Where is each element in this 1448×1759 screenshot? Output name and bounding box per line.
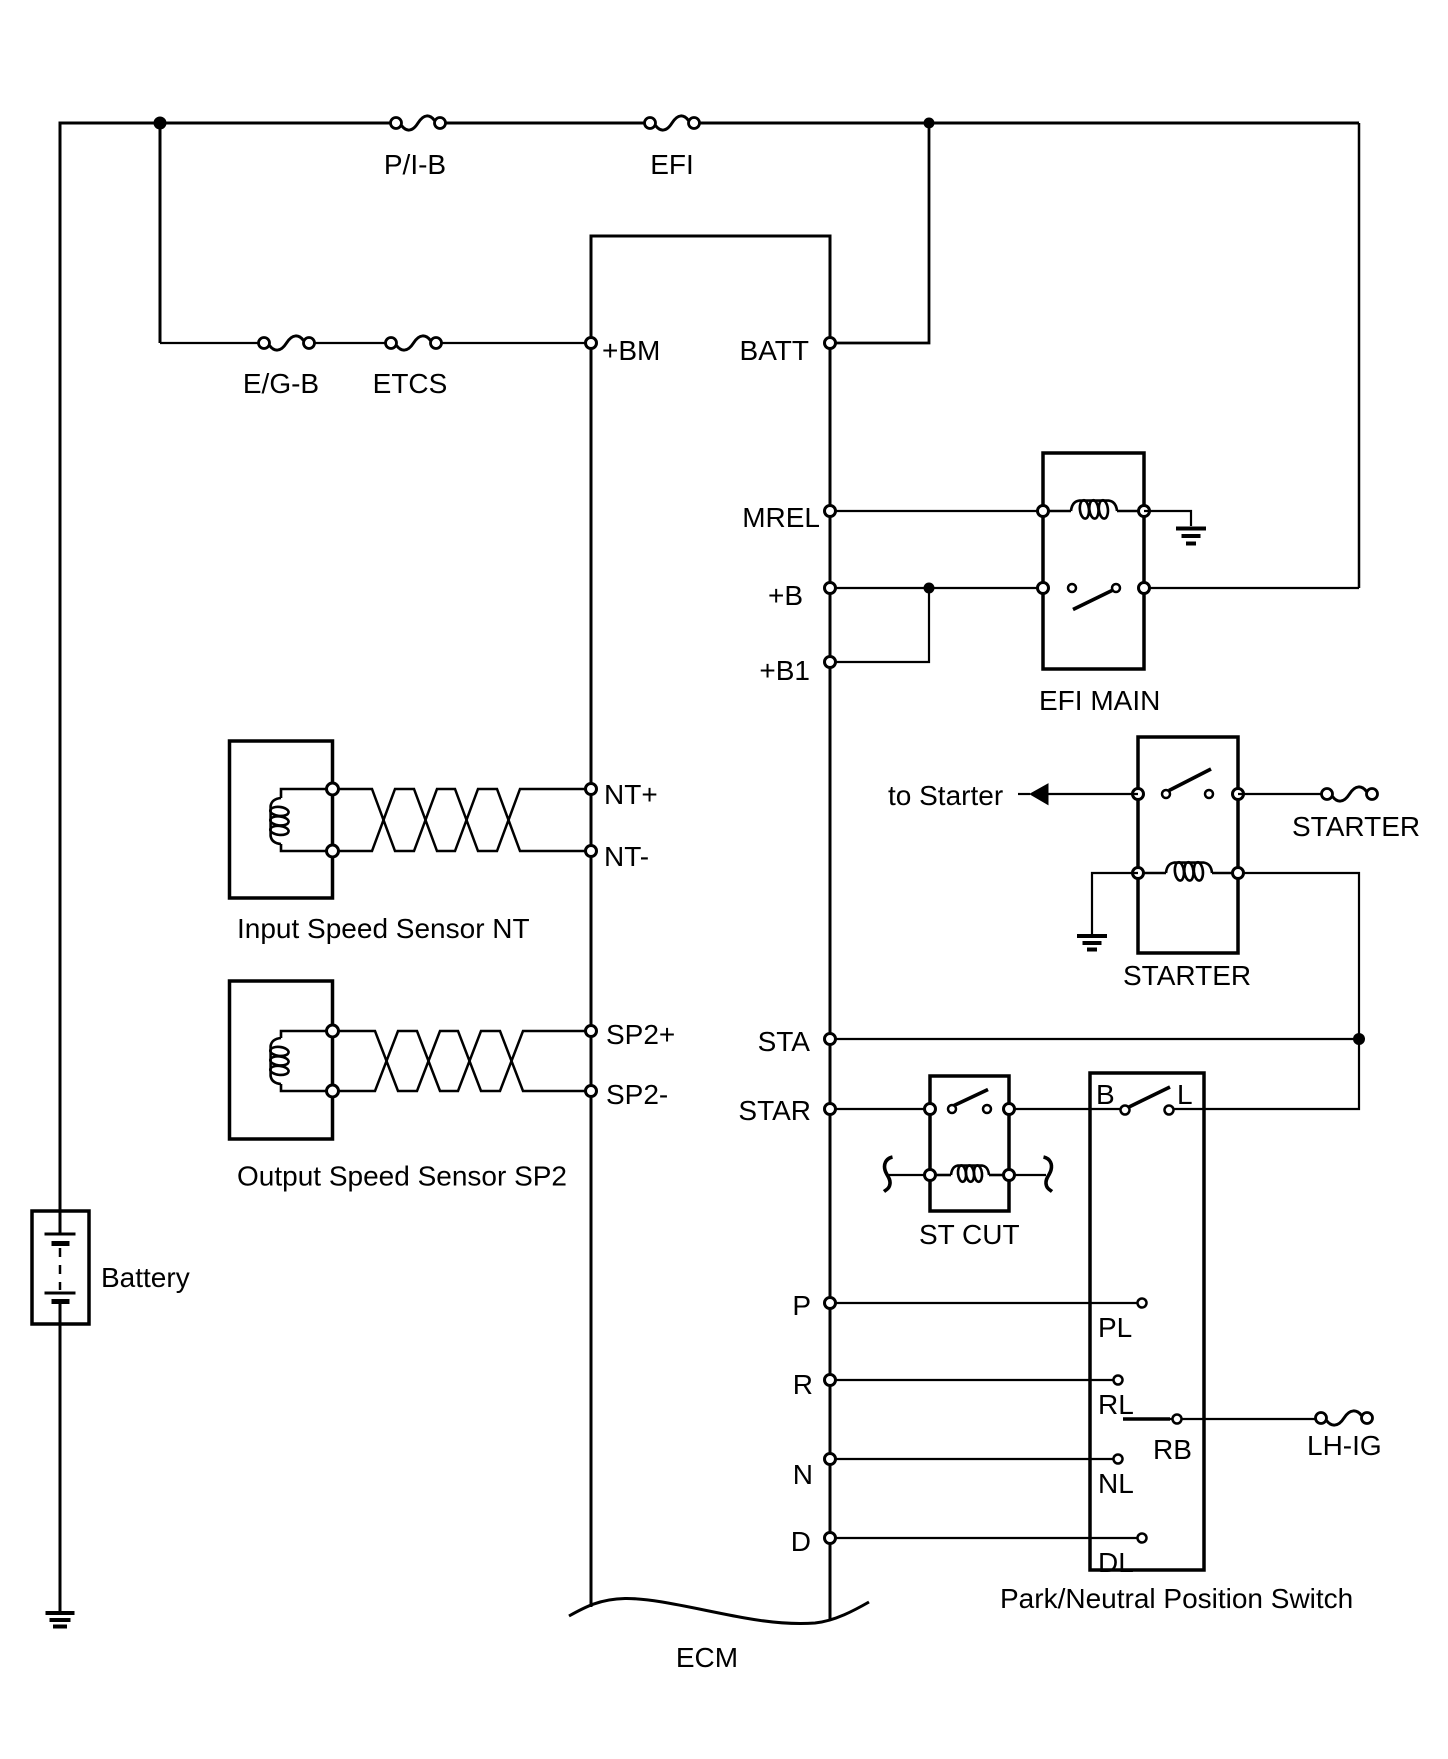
- svg-text:to Starter: to Starter: [888, 780, 1003, 811]
- wire L contact to right riser: [1174, 1039, 1359, 1109]
- wire D: [830, 1537, 1142, 1539]
- twisted pair NT: [339, 789, 585, 851]
- wire second row to +BM: [160, 342, 591, 344]
- ECM terminal STAR: [825, 1104, 836, 1115]
- wire right rail: [1358, 123, 1361, 588]
- ECM terminal STA: [825, 1034, 836, 1045]
- svg-text:SP2-: SP2-: [606, 1079, 668, 1110]
- svg-text:R: R: [793, 1369, 813, 1400]
- svg-text:E/G-B: E/G-B: [243, 368, 319, 399]
- wire +B to relay: [830, 587, 1043, 589]
- svg-text:ECM: ECM: [676, 1642, 738, 1673]
- svg-text:STARTER: STARTER: [1123, 960, 1251, 991]
- wire to Starter with arrow: [888, 780, 1138, 811]
- svg-text:NL: NL: [1098, 1468, 1134, 1499]
- contact RL: [1114, 1376, 1123, 1385]
- sensor Output Speed Sensor SP2: [230, 981, 568, 1192]
- fuse ETCS: [373, 336, 448, 399]
- svg-text:NT+: NT+: [604, 779, 658, 810]
- svg-text:RL: RL: [1098, 1389, 1134, 1420]
- ground starter relay: [1077, 936, 1107, 950]
- svg-text:L: L: [1177, 1079, 1193, 1110]
- wire RB row: [1123, 1417, 1170, 1421]
- svg-text:SP2+: SP2+: [606, 1019, 675, 1050]
- wire EFI relay coil to ground: [1144, 511, 1191, 526]
- svg-text:ST CUT: ST CUT: [919, 1219, 1020, 1250]
- ECM terminal +B1: [825, 657, 836, 668]
- svg-text:ETCS: ETCS: [373, 368, 448, 399]
- wire STA: [830, 1038, 1359, 1040]
- svg-text:Park/Neutral Position Switch: Park/Neutral Position Switch: [1000, 1583, 1353, 1614]
- fuse E/G-B: [243, 336, 319, 399]
- ECM terminal P: [825, 1298, 836, 1309]
- svg-text:P/I-B: P/I-B: [384, 149, 446, 180]
- blade B-L: [1129, 1087, 1170, 1107]
- svg-text:+B1: +B1: [759, 655, 810, 686]
- fuse EFI: [645, 116, 700, 180]
- svg-text:N: N: [793, 1459, 813, 1490]
- wire +B1 riser: [830, 588, 929, 662]
- svg-text:D: D: [791, 1526, 811, 1557]
- fuse LH-IG: [1307, 1411, 1382, 1461]
- relay STARTER: [1123, 737, 1251, 991]
- svg-text:NT-: NT-: [604, 841, 649, 872]
- relay EFI MAIN: [1038, 453, 1161, 716]
- svg-text:STARTER: STARTER: [1292, 811, 1420, 842]
- ECM terminal +BM: [586, 338, 597, 349]
- wire branch down from junction: [159, 123, 162, 343]
- ground EFI relay: [1176, 529, 1206, 544]
- ground battery: [46, 1613, 75, 1627]
- ECM terminal R: [825, 1375, 836, 1386]
- ECM terminal D: [825, 1533, 836, 1544]
- ECM terminal N: [825, 1454, 836, 1465]
- wire ST CUT to B contact: [1009, 1108, 1120, 1110]
- wire starter coil to STA riser: [1238, 873, 1359, 1039]
- contact L: [1165, 1106, 1174, 1115]
- node junction +B: [924, 583, 935, 594]
- svg-text:MREL: MREL: [742, 502, 820, 533]
- wire left rail upper: [59, 122, 62, 1235]
- wire relay switch to right rail: [1144, 587, 1359, 589]
- node junction top-left: [154, 117, 167, 130]
- fuse STARTER: [1238, 787, 1420, 842]
- relay ST CUT: [919, 1076, 1020, 1250]
- svg-text:STA: STA: [758, 1026, 811, 1057]
- svg-text:LH-IG: LH-IG: [1307, 1430, 1382, 1461]
- wire MREL to relay: [830, 510, 1043, 512]
- wire STAR to ST CUT: [830, 1108, 930, 1110]
- wire ST CUT coil right stub: [1014, 1174, 1046, 1176]
- svg-text:PL: PL: [1098, 1312, 1132, 1343]
- break mark right: [1044, 1157, 1053, 1192]
- node junction BATT top: [924, 118, 935, 129]
- svg-text:EFI MAIN: EFI MAIN: [1039, 685, 1160, 716]
- contact NL: [1114, 1455, 1123, 1464]
- ECM terminal BATT: [825, 338, 836, 349]
- wire starter coil to ground: [1092, 873, 1138, 934]
- wire BATT to top rail: [830, 123, 929, 343]
- node junction STA: [1353, 1033, 1365, 1045]
- wire N: [830, 1458, 1118, 1460]
- contact DL: [1138, 1534, 1147, 1543]
- contact PL: [1138, 1299, 1147, 1308]
- ECM terminal +B: [825, 583, 836, 594]
- svg-text:RB: RB: [1153, 1434, 1192, 1465]
- sensor Input Speed Sensor NT: [230, 741, 530, 944]
- wire top rail: [60, 122, 1359, 125]
- wire left rail lower (battery to ground): [59, 1301, 62, 1613]
- ECM terminal SP2-: [586, 1086, 597, 1097]
- wire ST CUT coil left stub: [888, 1174, 925, 1176]
- battery: [32, 1211, 190, 1324]
- svg-text:Input Speed Sensor NT: Input Speed Sensor NT: [237, 913, 530, 944]
- svg-text:DL: DL: [1098, 1547, 1134, 1578]
- svg-text:BATT: BATT: [740, 335, 809, 366]
- contact RB: [1173, 1415, 1182, 1424]
- Park/Neutral Position Switch box: [1000, 1073, 1353, 1614]
- ECM terminal MREL: [825, 506, 836, 517]
- ECM terminal NT-: [586, 846, 597, 857]
- ECM box: [569, 236, 869, 1673]
- svg-text:B: B: [1096, 1079, 1115, 1110]
- fuse P/I-B: [384, 116, 446, 180]
- svg-text:Output Speed Sensor SP2: Output Speed Sensor SP2: [237, 1161, 567, 1192]
- ECM terminal NT+: [586, 784, 597, 795]
- svg-text:EFI: EFI: [650, 149, 694, 180]
- wire P: [830, 1302, 1142, 1304]
- svg-text:+B: +B: [768, 580, 803, 611]
- twisted pair SP2: [339, 1031, 585, 1091]
- svg-text:Battery: Battery: [101, 1262, 190, 1293]
- wire R: [830, 1379, 1118, 1381]
- svg-text:STAR: STAR: [738, 1095, 811, 1126]
- contact B: [1121, 1106, 1130, 1115]
- svg-text:P: P: [792, 1290, 811, 1321]
- ECM terminal SP2+: [586, 1026, 597, 1037]
- break mark left: [884, 1157, 893, 1192]
- svg-text:+BM: +BM: [602, 335, 660, 366]
